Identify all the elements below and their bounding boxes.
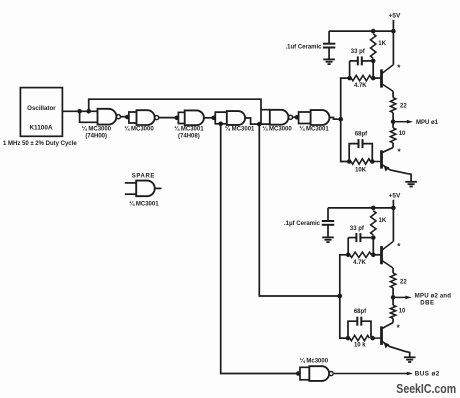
label +5V rail 2 (389, 193, 401, 200)
label U5 (262, 126, 292, 133)
resistor R8 22 (390, 273, 395, 288)
svg-text:¼ MC3000: ¼ MC3000 (82, 126, 112, 133)
wire rail 2 (328, 207, 393, 209)
star Q2 (397, 148, 401, 157)
resistor R5 10K (351, 159, 371, 164)
resistor R6 1K (371, 211, 376, 235)
svg-text:Oscillator: Oscillator (27, 105, 56, 112)
wire Q2 emitter (382, 164, 412, 181)
label R9 (399, 309, 406, 315)
label U8 (129, 201, 159, 208)
svg-text:+5V: +5V (389, 193, 401, 200)
svg-text:.1μf Ceramic: .1μf Ceramic (284, 221, 321, 227)
resistor R7 4.7K (350, 252, 372, 257)
svg-text:SPARE: SPARE (132, 173, 155, 179)
transistor Q3 (382, 241, 394, 268)
node n1k2 (371, 235, 376, 240)
svg-text:¼ MC3001: ¼ MC3001 (129, 201, 159, 208)
label BUS phi2 (415, 371, 440, 378)
wire +5V drop 2 (392, 200, 394, 208)
wire base drop 1 (372, 61, 374, 78)
wire U1 out (120, 116, 127, 118)
svg-text:1K: 1K (379, 218, 387, 224)
label U6 (299, 126, 329, 133)
label R6 (379, 218, 387, 224)
svg-text:33 pf: 33 pf (350, 226, 365, 232)
svg-text:BUS ø2: BUS ø2 (415, 371, 440, 378)
node r10k2-r (370, 336, 375, 341)
transistor Q4 (373, 326, 381, 345)
wire U6 out jog (330, 118, 341, 120)
node r47-2 (346, 253, 351, 258)
node r47-1 (347, 76, 352, 81)
nand gate U7 quarter MC3000 (309, 366, 333, 381)
wire U5 input bracket (261, 110, 270, 124)
label U4 (225, 126, 255, 133)
svg-text:¼ MC3000: ¼ MC3000 (262, 126, 292, 133)
label +5V rail 1 (389, 13, 401, 20)
label U2 (124, 126, 154, 133)
svg-text:68pf: 68pf (355, 132, 368, 138)
label C5 (350, 226, 365, 232)
svg-text:(74H00): (74H00) (85, 134, 107, 140)
transistor Q2 (372, 150, 381, 168)
svg-text:10K: 10K (355, 168, 367, 174)
wire bus-phi2 feed (221, 124, 299, 374)
node base2 (371, 253, 376, 258)
resistor R10 10k (350, 335, 370, 340)
capacitor C2 33pf (350, 56, 374, 65)
resistor R3 22 (390, 98, 395, 113)
wire Q4 collector (382, 318, 394, 328)
capacitor C5 33pf (348, 233, 373, 242)
node rail1-b (391, 29, 396, 34)
wire C2 left leg (349, 61, 351, 78)
resistor R4 10 (390, 128, 395, 143)
node n4 bus tap (218, 122, 223, 127)
node phi1 (391, 119, 396, 124)
star Q1 (397, 64, 401, 73)
label R5 (355, 168, 367, 174)
and gate U4 quarter MC3001 (227, 111, 245, 125)
wire base drop 2 (372, 238, 374, 255)
node trunk2 junction (338, 294, 343, 299)
transistor Q1 (382, 65, 394, 92)
node n5 phase2 tap (257, 122, 262, 127)
node n7 driver1 input (338, 117, 343, 122)
node osc-a (77, 109, 82, 114)
svg-text:4.7K: 4.7K (354, 83, 367, 89)
wire +5V drop 1 (392, 20, 394, 31)
svg-text:(74H08): (74H08) (178, 134, 200, 140)
wire Q1 emitter (392, 91, 394, 97)
node r10k-r (370, 159, 375, 164)
wire rail 1 (329, 30, 393, 32)
wire base2 to Q3 (373, 254, 381, 256)
node osc-b (86, 109, 91, 114)
resistor R2 4.7K (351, 75, 371, 80)
node r10k2-l (346, 336, 351, 341)
wire phase2 feed (259, 124, 340, 296)
node rail2-a (371, 206, 376, 211)
and gate U8 spare quarter MC3001 (125, 181, 162, 197)
label U1 (82, 126, 112, 140)
capacitor C1 .1uf ceramic (323, 31, 335, 59)
wire U6 input bracket (299, 112, 311, 124)
node r10k-l (347, 159, 352, 164)
svg-text:33 pf: 33 pf (351, 49, 366, 55)
svg-text:4.7K: 4.7K (353, 260, 366, 266)
wire Q3 collector (392, 208, 394, 241)
svg-text:1K: 1K (378, 41, 386, 47)
label MPU phi1 (416, 120, 439, 126)
svg-text:SeekIC.com: SeekIC.com (396, 381, 456, 396)
label MPU phi2 (415, 293, 451, 299)
wire U4 input bracket (215, 112, 227, 124)
wire BUS phi2 arrow (334, 372, 413, 376)
svg-text:10: 10 (399, 309, 406, 315)
wire U5 out (292, 116, 297, 118)
wire to U1 lower input (80, 111, 98, 122)
node n3 (211, 116, 216, 121)
label R10 (354, 342, 366, 348)
wire U3 input bracket (178, 112, 184, 123)
svg-text:¼ MC3000: ¼ MC3000 (124, 126, 154, 133)
wire Q2 collector (382, 143, 394, 153)
label C1 (285, 45, 322, 51)
svg-text:DBE: DBE (420, 300, 434, 306)
label C6 (354, 309, 367, 315)
wire U2 input bracket (129, 112, 137, 123)
svg-text:¼ MC3001: ¼ MC3001 (299, 126, 329, 133)
svg-text:MPU ø2 and: MPU ø2 and (415, 293, 451, 299)
node n1 (125, 115, 130, 120)
wire base1 to Q1 (373, 77, 381, 79)
label R7 (353, 260, 366, 266)
wire feedback rail (89, 99, 261, 111)
svg-text:¼ Mc3000: ¼ Mc3000 (300, 358, 329, 365)
label C4 (284, 221, 321, 227)
svg-text:10: 10 (399, 131, 406, 137)
nand gate U2 quarter MC3000 (137, 110, 159, 125)
wire Q1 collector (392, 31, 394, 65)
wire MPU phi2 arrow (393, 296, 412, 300)
label R1 (378, 41, 386, 47)
label U7 (300, 358, 329, 365)
svg-text:+5V: +5V (389, 13, 401, 20)
watermark SeekIC.com (396, 381, 456, 396)
node n1k1 (371, 59, 376, 64)
svg-text:.1uf Ceramic: .1uf Ceramic (285, 45, 322, 51)
oscillator box K1100A (20, 88, 62, 137)
and gate U6 quarter MC3001 (311, 110, 330, 125)
label R8 (400, 279, 407, 285)
node n2 (175, 116, 180, 121)
label U3 (174, 126, 204, 140)
wire oscillator output (62, 110, 97, 112)
nand gate U5 quarter MC3000 (270, 110, 293, 125)
svg-text:22: 22 (400, 279, 407, 285)
node rail1-a (371, 29, 376, 34)
svg-text:¼ MC3001: ¼ MC3001 (174, 126, 204, 133)
node n6 (295, 115, 300, 120)
svg-text:MPU ø1: MPU ø1 (416, 120, 439, 126)
svg-text:10 k: 10 k (354, 342, 366, 348)
ground C1 (323, 59, 335, 64)
node phi2 (391, 295, 396, 300)
wire C5 left leg (347, 238, 349, 255)
node base1 (371, 76, 376, 81)
wire U2 out (159, 117, 177, 119)
svg-text:68pf: 68pf (354, 309, 367, 315)
wire MPU phi1 arrow (393, 120, 413, 124)
star Q3 (397, 242, 401, 251)
wire phi1 node (392, 113, 394, 128)
svg-text:K1100A: K1100A (29, 124, 52, 131)
wire U4 out jog (245, 118, 259, 124)
label R4 (399, 131, 406, 137)
node rail2-b (391, 206, 396, 211)
label DBE (420, 300, 434, 306)
label C2 (351, 49, 366, 55)
node n-bus (296, 371, 301, 376)
label spare (132, 173, 155, 179)
capacitor C4 .1uf ceramic (322, 208, 334, 237)
ground Q4 (404, 357, 416, 362)
and gate U3 quarter MC3001 (185, 110, 204, 125)
wire Q3 emitter (392, 268, 394, 273)
wire U7 input bracket (300, 367, 309, 380)
capacitor C6 68pf (348, 317, 371, 338)
wire trunk driver1 (341, 78, 350, 161)
nand gate U1 quarter MC3000 (98, 109, 121, 125)
svg-text:¼ MC3001: ¼ MC3001 (225, 126, 255, 133)
wire Q4 emitter (382, 341, 410, 357)
svg-text:22: 22 (400, 103, 407, 109)
wire U3 out (204, 117, 214, 119)
resistor R1 1K (371, 34, 376, 58)
label R3 (400, 103, 407, 109)
resistor R9 10 (390, 305, 395, 318)
label R2 (354, 83, 367, 89)
star Q4 (397, 324, 401, 333)
caption 1 MHz duty cycle (3, 141, 77, 147)
svg-text:1 MHz 50 ± 2% Duty Cycle: 1 MHz 50 ± 2% Duty Cycle (3, 141, 77, 147)
capacitor C3 68pf (349, 139, 372, 161)
wire phi2 node (392, 288, 394, 306)
label C3 (355, 132, 368, 138)
ground C4 (322, 237, 334, 242)
wire trunk driver2 (340, 255, 348, 338)
ground Q2 (405, 182, 417, 187)
